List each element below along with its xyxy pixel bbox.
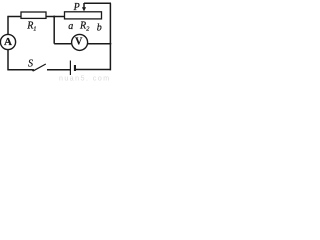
- svg-text:R2: R2: [79, 21, 90, 33]
- svg-text:R1: R1: [26, 21, 36, 33]
- svg-text:P: P: [73, 2, 80, 13]
- wire bottom-left horizontal to switch: [8, 69, 33, 71]
- voltmeter V: [72, 34, 88, 50]
- svg-text:A: A: [4, 36, 12, 48]
- rheostat slider arrowhead: [82, 7, 86, 11]
- resistor R1: [21, 12, 46, 18]
- wire top-left horizontal: [8, 16, 22, 18]
- wire left vertical upper (corner to ammeter): [7, 16, 9, 35]
- svg-text:a: a: [68, 21, 73, 32]
- node junction at right wire: [109, 43, 111, 45]
- svg-text:V: V: [75, 37, 83, 48]
- wire voltmeter branch vertical: [53, 17, 55, 44]
- rheostat slider stem: [83, 3, 85, 8]
- rheostat R2 box: [65, 12, 102, 19]
- wire switch to battery: [47, 69, 70, 71]
- battery short plate (-): [74, 65, 76, 71]
- wire voltmeter right lead: [88, 43, 111, 45]
- wire top (slider to top-right corner): [84, 2, 111, 4]
- node junction (voltmeter tap): [53, 16, 55, 18]
- svg-text:S: S: [28, 58, 33, 69]
- wire battery to bottom-right corner: [76, 69, 111, 71]
- switch S blade: [33, 64, 45, 71]
- switch S pivot contact: [32, 69, 34, 71]
- svg-text:nuan5. com: nuan5. com: [59, 75, 111, 81]
- wire left vertical lower (ammeter to bottom corner): [7, 50, 9, 71]
- svg-text:b: b: [97, 22, 102, 33]
- wire R1 right lead to node: [46, 16, 65, 18]
- wire right vertical: [109, 3, 111, 70]
- battery long plate (+): [69, 61, 71, 76]
- wire voltmeter branch horizontal: [54, 43, 71, 45]
- ammeter A: [0, 34, 15, 49]
